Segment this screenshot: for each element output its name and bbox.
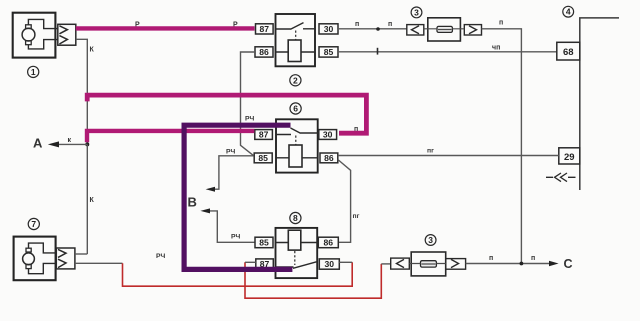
splice tick (377, 48, 379, 55)
svg-text:86: 86 (324, 238, 334, 248)
motor 7 bottom brush (26, 264, 31, 268)
label 3 (circled) (425, 235, 436, 246)
junction dot (520, 262, 524, 266)
wire K: motor 1 down to node A (76, 39, 88, 144)
svg-text:4: 4 (566, 7, 571, 17)
arrow C (549, 261, 559, 266)
svg-text:68: 68 (563, 47, 574, 58)
label 1 (circled) (28, 66, 39, 77)
svg-text:РЧ: РЧ (156, 253, 166, 260)
connector of motor 7 (56, 248, 75, 269)
label 4 (circled) (563, 6, 574, 17)
relay 8 pin 85 (255, 237, 273, 248)
red wire: motor 7 to relay 8 pin 30 (123, 262, 353, 286)
svg-text:п: п (531, 255, 535, 262)
node A junction (85, 142, 89, 146)
svg-text:А: А (33, 136, 43, 151)
motor 7 outer box (14, 237, 56, 281)
purple highlight: relay 6 pin 87 to relay 8 pin 87 (184, 125, 292, 269)
svg-text:п: п (355, 21, 359, 28)
motor 1 internal leads (28, 19, 57, 49)
svg-text:РЧ: РЧ (231, 234, 241, 241)
label 2 (circled) (290, 75, 301, 86)
wire: relay 2 pin 86 to relay 6 pin 85 (241, 52, 256, 156)
junction dot (376, 27, 380, 31)
relay 2 coil (288, 40, 301, 62)
connector of motor 1 (58, 24, 76, 45)
relay 6 pin 85 (254, 153, 272, 163)
motor 1 bottom brush (26, 41, 32, 45)
wire through fuse 3 top (424, 28, 465, 31)
fuse 3 (bottom) body (411, 252, 446, 276)
svg-text:РЧ: РЧ (226, 149, 236, 156)
relay 6 body (276, 119, 318, 172)
label 6 (circled) (290, 103, 301, 114)
svg-text:3: 3 (428, 235, 433, 245)
relay 6 coil (289, 145, 302, 167)
svg-text:В: В (188, 195, 197, 210)
relay 2 contact (276, 23, 316, 30)
fuse 3 (top) body (428, 18, 461, 41)
svg-text:чп: чп (492, 45, 500, 52)
fuse 3 (top) left connector (407, 25, 424, 35)
relay 8 coil (288, 230, 301, 250)
relay 2 pin 85 (319, 47, 338, 57)
fuse 3 (bottom) element (421, 261, 437, 267)
wire pg: relay 6 pin 86 to connector 29 (338, 155, 559, 157)
svg-text:К: К (90, 197, 95, 204)
svg-text:3: 3 (414, 7, 419, 17)
svg-text:87: 87 (260, 24, 270, 34)
motor 1 top brush (26, 25, 32, 29)
wire through fuse 3 bottom (409, 263, 445, 266)
svg-text:30: 30 (323, 130, 333, 140)
svg-text:85: 85 (324, 47, 334, 57)
motor 1 (fan motor) outer box (13, 13, 56, 58)
connector 29 (559, 148, 580, 164)
relay 2 pin 86 (255, 47, 273, 57)
wire K: node A down to motor 7 (86, 145, 88, 255)
relay 8 pin 86 (318, 237, 338, 248)
relay 6 contact (276, 128, 318, 135)
connector 68 (557, 42, 580, 60)
svg-text:85: 85 (258, 153, 268, 163)
motor 7 top brush (26, 248, 31, 252)
svg-text:86: 86 (259, 47, 269, 57)
svg-text:8: 8 (293, 213, 298, 223)
svg-text:29: 29 (564, 152, 575, 163)
fuse 3 (bottom) left connector (391, 258, 410, 269)
svg-text:пг: пг (353, 213, 360, 220)
fuse 3 (top) element (437, 26, 452, 32)
wire P pink: motor 1 to relay 2 pin 87 (76, 26, 255, 30)
relay 2 pin 87 (256, 24, 274, 34)
label 8 (circled) (290, 212, 301, 223)
relay 8 contact (276, 262, 317, 269)
pink highlight: node to relay 6 pin 30 (87, 95, 366, 133)
wire chp: relay 2 pin 85 to connector 68 (338, 51, 557, 53)
svg-text:К: К (90, 47, 95, 54)
svg-text:6: 6 (293, 104, 298, 114)
svg-text:85: 85 (259, 238, 269, 248)
svg-text:п: п (489, 255, 493, 262)
continuation arrow under 29 (546, 176, 576, 178)
svg-text:пг: пг (427, 148, 434, 155)
relay 8 body (276, 228, 318, 278)
svg-text:С: С (564, 257, 573, 271)
svg-text:7: 7 (31, 219, 36, 229)
red wire: relay 8 pin 87 to fuse 3 bottom (245, 262, 381, 298)
svg-text:к: к (68, 137, 72, 144)
svg-text:п: п (388, 21, 392, 28)
svg-text:2: 2 (293, 75, 298, 85)
relay 8 pin 30 (319, 259, 339, 269)
wire: relay 6 pin 85 to arrow (211, 156, 254, 189)
motor 7 internal leads (29, 243, 57, 274)
pink highlight: node A to relay 6 pin 87 (87, 131, 254, 142)
motor 1 armature circle (22, 28, 35, 41)
wire p: fuse 3 output down right side (482, 29, 522, 264)
wire: motor 7 top pin to node A riser (75, 253, 87, 255)
relay 6 pin 87 (255, 130, 273, 140)
svg-text:1: 1 (31, 67, 36, 77)
relay 2 body (276, 14, 316, 66)
wire p: fuse 3 bottom to arrow C (466, 263, 550, 265)
svg-text:п: п (499, 20, 503, 27)
wire: arrow to relay 8 pin 85 (210, 211, 255, 242)
svg-text:87: 87 (259, 130, 269, 140)
stub relay 8 pin 30 (339, 261, 352, 263)
arrow A (59, 143, 88, 145)
svg-text:30: 30 (324, 24, 334, 34)
svg-text:РЧ: РЧ (245, 116, 255, 123)
svg-text:30: 30 (325, 259, 335, 269)
relay 6 pin 30 (319, 130, 337, 140)
label 3 (circled) (411, 7, 422, 18)
relay 6 pin 86 (320, 153, 338, 163)
wire pg: relay 6 pin 86 down to relay 8 pin 86 (338, 160, 351, 243)
motor 7 armature circle (23, 253, 35, 265)
svg-text:86: 86 (324, 153, 334, 163)
relay 2 pin 30 (319, 24, 338, 34)
relay 8 pin 87 (256, 259, 273, 269)
fuse 3 (bottom) right connector (446, 259, 466, 270)
wire p: relay 2 pin 30 to fuse 3 (338, 28, 407, 30)
label 7 (circled) (28, 218, 39, 229)
fuse 3 (top) right connector (464, 25, 481, 35)
stub relay 8 pin 87 (245, 261, 256, 263)
unit 4 outline (580, 18, 619, 190)
wire: to fuse 3 bottom left (381, 263, 390, 265)
wire: motor 7 bottom pin (75, 262, 123, 264)
